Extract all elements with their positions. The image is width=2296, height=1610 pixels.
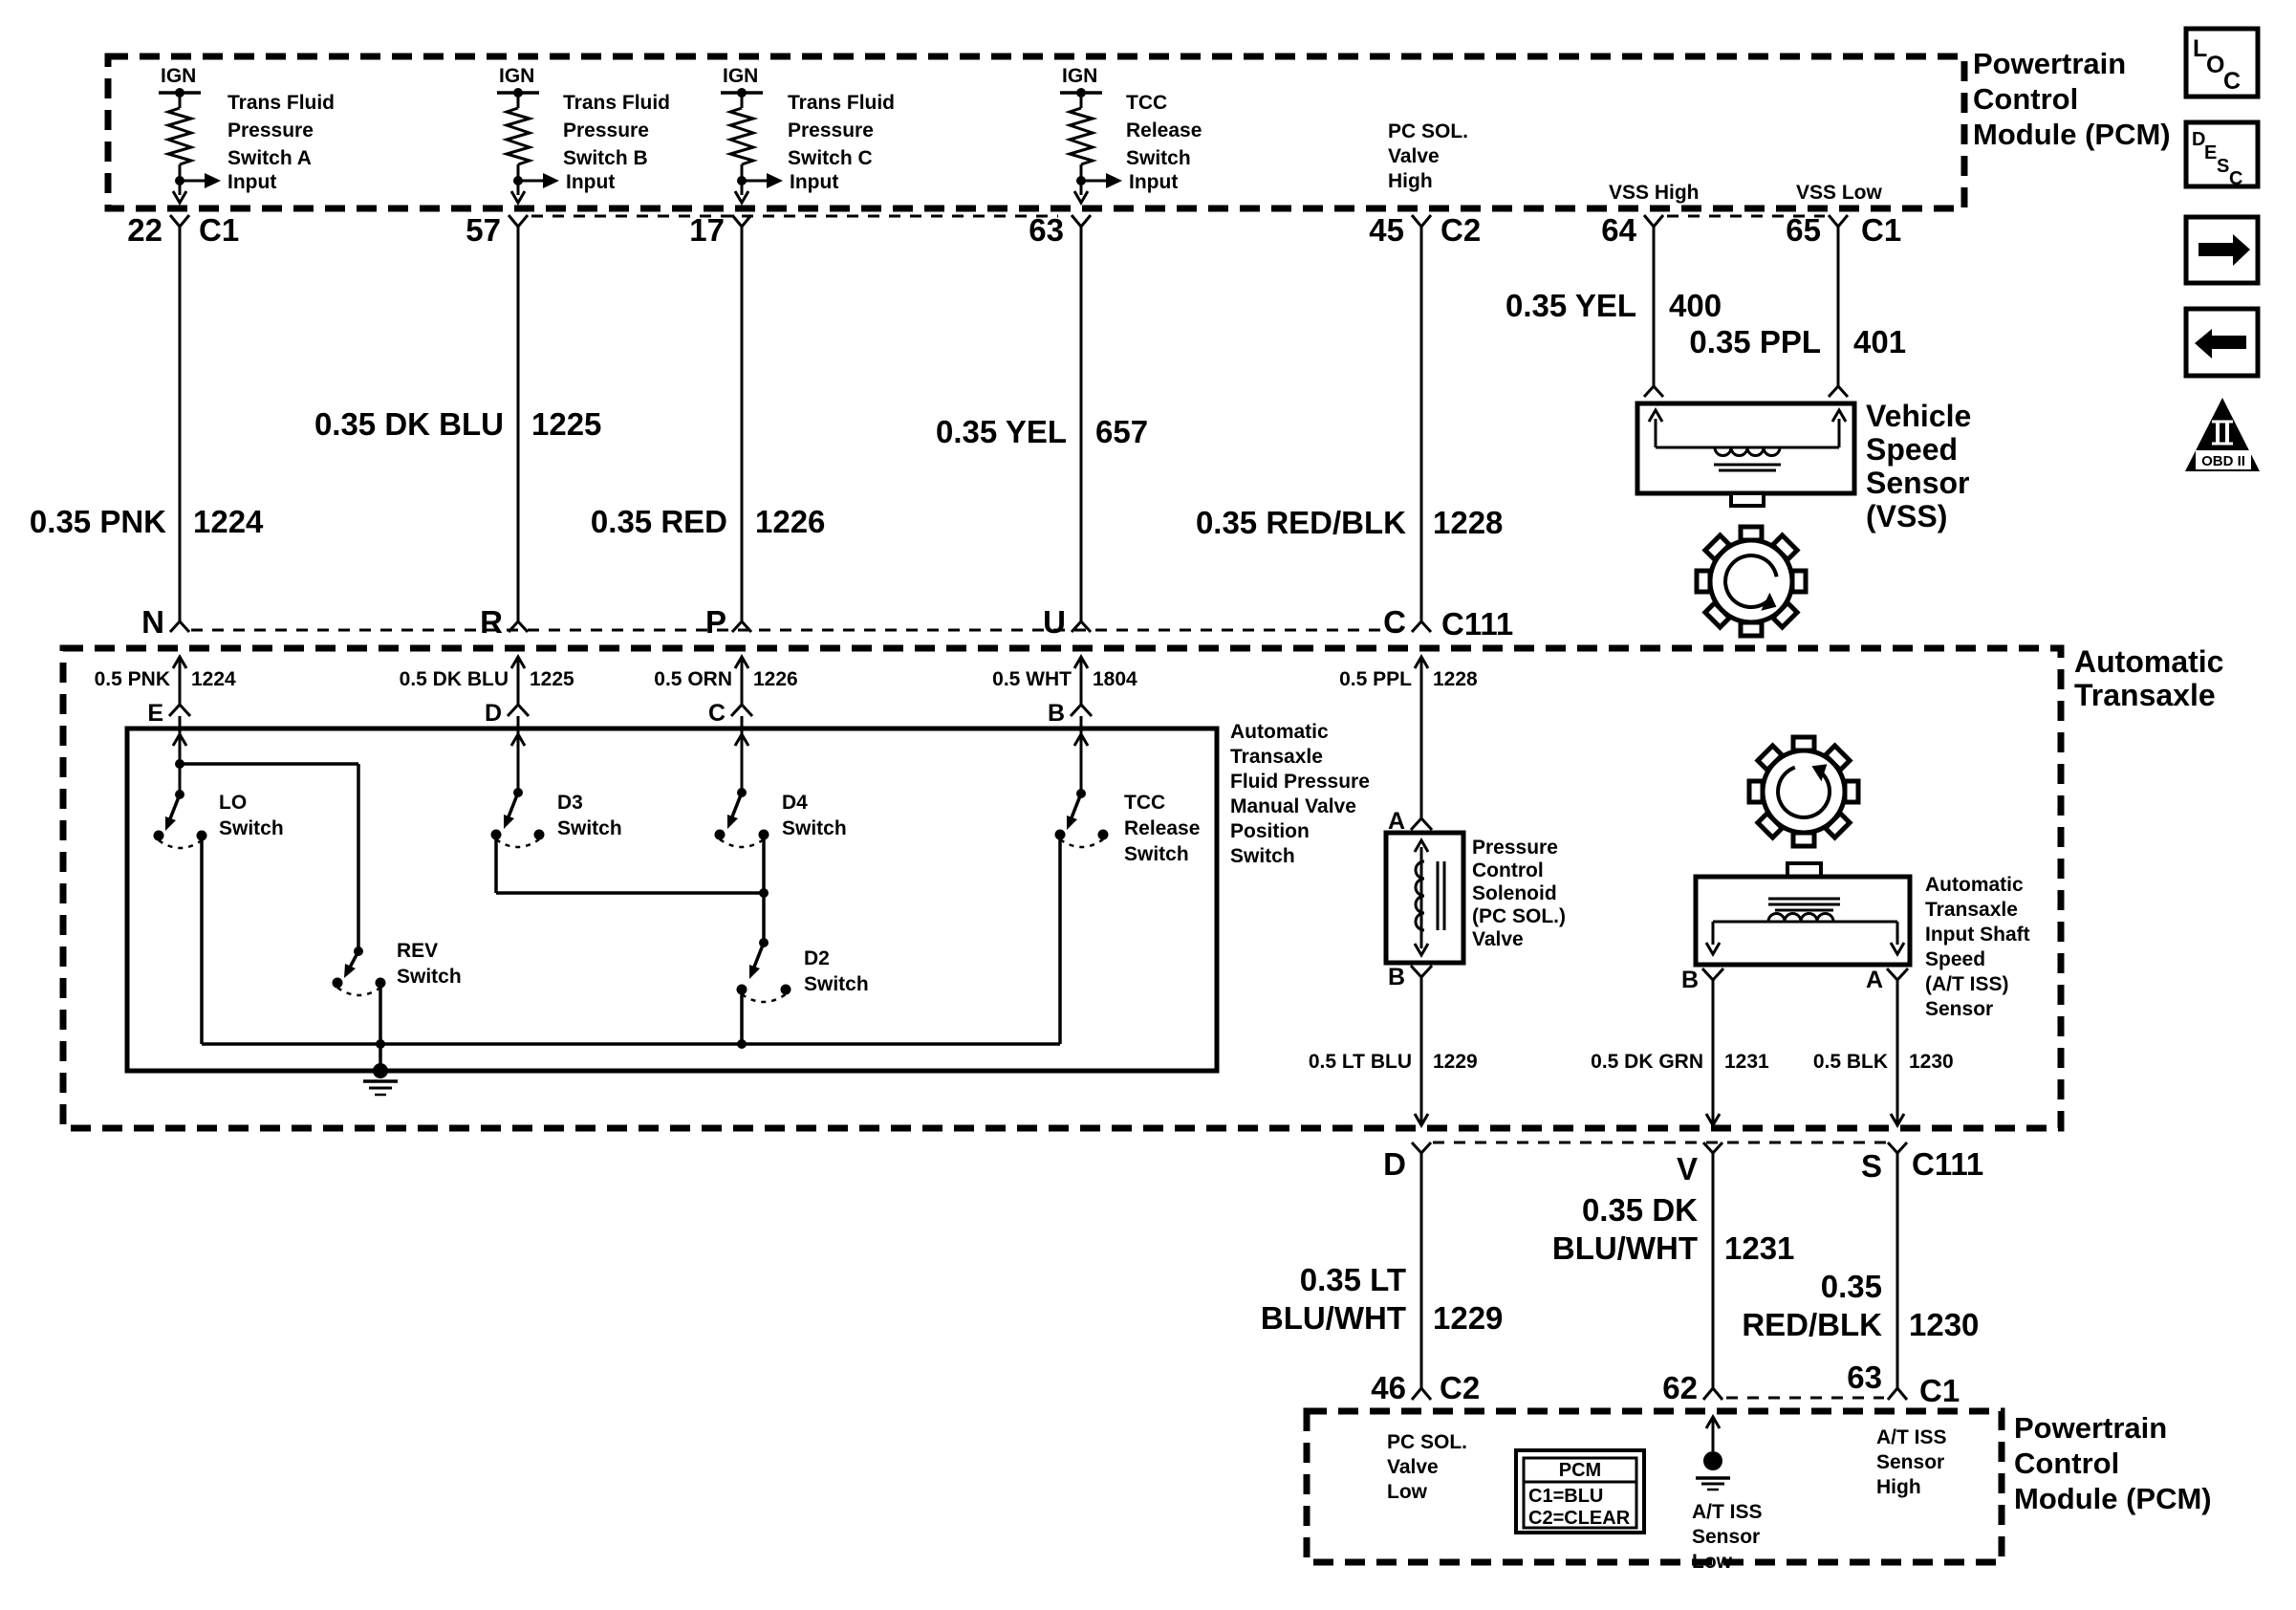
svg-text:0.35 LT: 0.35 LT (1300, 1262, 1406, 1297)
wire label 0.35 RED/BLK 1228 (1196, 505, 1503, 540)
svg-text:D3: D3 (557, 792, 583, 814)
svg-text:C1: C1 (1919, 1373, 1960, 1408)
svg-text:VSS Low: VSS Low (1796, 182, 1883, 204)
svg-text:Switch: Switch (219, 817, 284, 839)
svg-text:1224: 1224 (193, 504, 264, 539)
svg-text:Switch: Switch (1126, 147, 1191, 169)
svg-text:0.5 BLK: 0.5 BLK (1813, 1051, 1888, 1073)
switch D3 (491, 765, 545, 847)
svg-text:Switch: Switch (1124, 843, 1189, 865)
wire 1229 LT BLU (PC SOL B to C111 D) (1309, 977, 1478, 1125)
svg-text:45: 45 (1369, 212, 1404, 248)
label: A/T ISS Sensor Low (1692, 1501, 1763, 1573)
wire D4 contact down to D2 pivot (762, 835, 766, 943)
switch REV (333, 946, 386, 995)
wire TCC contact to ground bus (1058, 835, 1062, 1044)
svg-text:O: O (2206, 52, 2224, 78)
label: Automatic Transaxle (2074, 644, 2223, 712)
resistor: Trans Fluid Pressure Switch B (507, 108, 530, 164)
svg-text:1226: 1226 (753, 668, 798, 690)
icon: LOC box (2186, 29, 2258, 97)
svg-text:C111: C111 (1441, 606, 1513, 642)
svg-text:E: E (2204, 142, 2217, 163)
svg-text:Fluid Pressure: Fluid Pressure (1230, 771, 1370, 793)
connector pin A at PC SOL valve (1388, 808, 1432, 835)
label: Pressure Control Solenoid (PC SOL.) Valve (1472, 837, 1566, 950)
svg-text:0.5 DK BLU: 0.5 DK BLU (400, 668, 509, 690)
icon: left arrow box (2186, 309, 2258, 376)
PCM connector legend box (1516, 1450, 1644, 1533)
wire into switch (x=1131) (1074, 729, 1088, 765)
svg-text:Switch: Switch (397, 966, 462, 988)
svg-text:C2: C2 (1440, 1370, 1480, 1405)
label: LO Switch (219, 792, 284, 839)
svg-text:C2=CLEAR: C2=CLEAR (1528, 1508, 1631, 1529)
svg-text:Powertrain: Powertrain (2014, 1411, 2167, 1445)
svg-text:Switch A: Switch A (227, 147, 312, 169)
svg-text:1228: 1228 (1433, 505, 1503, 540)
connector pin R at C111 (480, 604, 528, 640)
connector pin 17 at PCM C1 (689, 212, 751, 248)
svg-text:C: C (708, 700, 726, 727)
label: Powertrain Control Module (PCM) top right (1973, 47, 2171, 151)
connector C111 upper thin dashed line (191, 629, 1411, 632)
svg-text:A/T ISS: A/T ISS (1876, 1426, 1947, 1448)
icon: OBD II triangle (2185, 398, 2260, 471)
node: switch C output junction + Input arrow (735, 164, 783, 203)
label: Automatic Transaxle Fluid Pressure Manual Valve Position Switch (1230, 721, 1370, 867)
svg-text:0.5 DK GRN: 0.5 DK GRN (1591, 1051, 1703, 1073)
PCM bottom module dashed box (1307, 1411, 2002, 1562)
svg-text:657: 657 (1095, 414, 1148, 449)
wire 400 YEL (pin64 to VSS) (1653, 227, 1656, 386)
svg-text:B: B (1388, 964, 1405, 990)
wire 1224 PNK (pin22 to C111 N) (179, 227, 182, 621)
svg-text:Position: Position (1230, 820, 1310, 842)
label: Vehicle Speed Sensor (VSS) (1866, 399, 1971, 533)
svg-text:IGN: IGN (723, 65, 758, 87)
switch D4 (715, 765, 769, 847)
svg-text:N: N (141, 604, 164, 640)
svg-text:Pressure: Pressure (227, 120, 314, 141)
wire label 0.35 RED 1226 (591, 504, 826, 539)
resistor: Trans Fluid Pressure Switch C (730, 108, 753, 164)
svg-text:VSS High: VSS High (1609, 182, 1700, 204)
svg-text:Switch C: Switch C (788, 147, 873, 169)
connector pin C at transaxle switch (708, 700, 752, 729)
svg-text:0.35 YEL: 0.35 YEL (1505, 288, 1636, 323)
svg-text:Control: Control (1973, 82, 2078, 116)
svg-text:Module (PCM): Module (PCM) (2014, 1482, 2212, 1515)
svg-text:L: L (2193, 35, 2207, 62)
svg-text:Low: Low (1387, 1481, 1428, 1503)
svg-text:A/T ISS: A/T ISS (1692, 1501, 1763, 1523)
svg-text:PCM: PCM (1559, 1460, 1601, 1481)
svg-text:D2: D2 (804, 947, 830, 969)
IGN feed for switch C (721, 65, 763, 108)
svg-text:(PC SOL.): (PC SOL.) (1472, 905, 1566, 927)
svg-text:Release: Release (1124, 817, 1200, 839)
svg-text:Transaxle: Transaxle (2074, 678, 2216, 712)
wire into switch (x=776) (735, 729, 748, 765)
svg-text:400: 400 (1669, 288, 1722, 323)
Pressure Control Solenoid (PC SOL.) Valve (1386, 833, 1463, 963)
wire 657 YEL (pin63 to C111 U) (1080, 227, 1083, 621)
svg-text:1230: 1230 (1909, 1307, 1979, 1342)
connector pin 45 C2 (1369, 212, 1481, 248)
svg-text:PC SOL.: PC SOL. (1387, 1431, 1467, 1453)
svg-text:Release: Release (1126, 120, 1202, 141)
svg-text:TCC: TCC (1124, 792, 1165, 814)
svg-text:22: 22 (127, 212, 162, 248)
connector pin V at C111 lower (1677, 1142, 1722, 1186)
svg-text:U: U (1043, 604, 1066, 640)
svg-text:1226: 1226 (755, 504, 825, 539)
wire into switch (x=542) (511, 729, 525, 765)
svg-text:(VSS): (VSS) (1866, 499, 1947, 533)
connector C1 thin dashed line (pins 64-65) (1667, 215, 1825, 218)
svg-text:Speed: Speed (1925, 948, 1985, 970)
wire REV contact to ground (376, 983, 385, 1071)
svg-text:1224: 1224 (191, 668, 236, 690)
svg-text:Sensor: Sensor (1866, 466, 1969, 500)
resistor: TCC Release Switch (1070, 108, 1093, 164)
svg-text:Control: Control (1472, 859, 1544, 881)
svg-text:High: High (1876, 1476, 1921, 1498)
IGN feed for switch TCC (1060, 65, 1102, 108)
label: PC SOL. Valve Low (1387, 1431, 1467, 1503)
svg-text:Valve: Valve (1472, 928, 1524, 950)
icon: right arrow box (2186, 217, 2258, 283)
svg-text:Switch: Switch (1230, 845, 1295, 867)
svg-text:Switch: Switch (782, 817, 847, 839)
svg-text:0.35 DK: 0.35 DK (1582, 1192, 1698, 1228)
wire label 0.35 PPL 401 (1689, 324, 1906, 359)
wire D3 contact to D4 line (496, 835, 769, 898)
node: switch B output junction + Input arrow (511, 164, 559, 203)
wire label 0.35 PNK 1224 (30, 504, 264, 539)
resistor: Trans Fluid Pressure Switch A (168, 108, 191, 164)
label: D3 Switch (557, 792, 622, 839)
svg-text:46: 46 (1371, 1370, 1406, 1405)
svg-text:1229: 1229 (1433, 1300, 1503, 1336)
svg-text:0.35 DK BLU: 0.35 DK BLU (314, 406, 504, 442)
svg-text:57: 57 (466, 212, 501, 248)
svg-text:A: A (1866, 967, 1883, 993)
wire 1224 0.5 PNK (C111 to transaxle pin E) (95, 657, 236, 705)
svg-text:1228: 1228 (1433, 668, 1478, 690)
label: REV Switch (397, 940, 462, 988)
svg-text:0.5 PPL: 0.5 PPL (1339, 668, 1412, 690)
svg-text:Solenoid: Solenoid (1472, 882, 1557, 904)
connector C111 lower thin dashed line (1433, 1142, 1886, 1144)
Vehicle Speed Sensor (VSS) body (1637, 403, 1854, 506)
svg-text:0.35 RED: 0.35 RED (591, 504, 727, 539)
svg-text:1231: 1231 (1724, 1051, 1769, 1073)
svg-text:Switch: Switch (804, 973, 869, 995)
svg-text:Sensor: Sensor (1692, 1526, 1760, 1548)
svg-text:Automatic: Automatic (2074, 644, 2223, 679)
svg-text:D4: D4 (782, 792, 808, 814)
connector pin E at transaxle switch (147, 700, 190, 729)
svg-text:1229: 1229 (1433, 1051, 1478, 1073)
svg-text:Automatic: Automatic (1925, 874, 2024, 896)
svg-text:C: C (2223, 68, 2241, 95)
VSS reluctor gear (1697, 527, 1806, 636)
svg-text:64: 64 (1601, 212, 1636, 248)
label: PC SOL. Valve High (1388, 120, 1468, 192)
wire 1229 LT BLU/WHT (C111 D to pin 46) (1261, 1153, 1504, 1388)
svg-text:E: E (147, 700, 163, 727)
PCM top module dashed box (108, 56, 1964, 208)
svg-text:0.35 PNK: 0.35 PNK (30, 504, 166, 539)
wire 1231 DK GRN (ISS B to C111 V) (1591, 980, 1769, 1125)
connector pin 65 C1 (1786, 212, 1901, 248)
svg-text:Manual Valve: Manual Valve (1230, 795, 1356, 817)
svg-text:IGN: IGN (1062, 65, 1097, 87)
svg-text:Module (PCM): Module (PCM) (1973, 118, 2171, 151)
svg-text:62: 62 (1662, 1370, 1698, 1405)
svg-text:Pressure: Pressure (1472, 837, 1558, 859)
svg-text:Trans Fluid: Trans Fluid (227, 92, 335, 114)
svg-text:S: S (2217, 156, 2229, 177)
svg-text:65: 65 (1786, 212, 1821, 248)
svg-text:IGN: IGN (499, 65, 534, 87)
wire 1804 0.5 WHT (C111 to transaxle pin B) (992, 657, 1137, 705)
label: D2 Switch (804, 947, 869, 995)
Automatic Transaxle Fluid Pressure Manual Valve Position Switch box (127, 729, 1217, 1071)
wire 1228 PPL (C111 C to PC SOL A) (1339, 657, 1478, 818)
svg-text:Pressure: Pressure (563, 120, 649, 141)
connector pin B at PC SOL valve (1388, 964, 1432, 990)
connector pin D at C111 lower (1383, 1142, 1431, 1182)
svg-text:P: P (705, 604, 726, 640)
connector pin P at C111 (705, 604, 751, 640)
svg-text:1804: 1804 (1093, 668, 1137, 690)
svg-text:High: High (1388, 170, 1433, 192)
svg-text:D: D (485, 700, 502, 727)
svg-text:C: C (2229, 168, 2242, 189)
wire 1231 DK BLU/WHT (C111 V to pin 62) (1552, 1153, 1795, 1388)
label: Powertrain Control Module (PCM) bottom right (2014, 1411, 2212, 1515)
svg-text:Valve: Valve (1387, 1456, 1439, 1478)
wire 1228 RED/BLK (pin45 to C111 C) (1420, 227, 1423, 621)
svg-text:C2: C2 (1440, 212, 1481, 248)
svg-text:Powertrain: Powertrain (1973, 47, 2126, 80)
label: Trans Fluid Pressure Switch C Input (788, 92, 895, 193)
connector pin S at C111 lower (1861, 1142, 1907, 1184)
svg-text:(A/T ISS): (A/T ISS) (1925, 973, 2009, 995)
wire 401 PPL (pin65 to VSS) (1837, 227, 1840, 386)
svg-text:Input: Input (1129, 171, 1178, 193)
wire 1225 0.5 DK BLU (C111 to transaxle pin D) (400, 657, 574, 705)
connector C1 thin dashed line (pins 57-63) (531, 215, 1058, 218)
ground bus wire inside switch box (202, 1042, 1060, 1046)
connector pin U at C111 (1043, 604, 1091, 640)
connector pin 22 C1 at PCM C1 (127, 212, 239, 248)
connector C1 thin dashed line (pins 62-63) (1726, 1397, 1884, 1400)
connector pin 63 C1 at PCM (1847, 1360, 1960, 1408)
connector pin N at C111 (141, 604, 189, 640)
wire 1226 RED (pin17 to C111 P) (741, 227, 744, 621)
svg-text:OBD II: OBD II (2201, 453, 2245, 469)
connector pin 64 (1601, 212, 1663, 248)
svg-text:Switch: Switch (557, 817, 622, 839)
svg-text:Control: Control (2014, 1447, 2119, 1480)
connector pin 46 C2 at PCM (1371, 1370, 1480, 1405)
connector pin 57 at PCM C1 (466, 212, 528, 248)
svg-text:B: B (1048, 700, 1065, 727)
svg-text:1225: 1225 (530, 668, 574, 690)
label: Trans Fluid Pressure Switch B Input (563, 92, 670, 193)
label: A/T ISS Sensor High (1876, 1426, 1947, 1498)
svg-text:401: 401 (1853, 324, 1906, 359)
svg-text:BLU/WHT: BLU/WHT (1261, 1300, 1406, 1336)
label: Trans Fluid Pressure Switch A Input (227, 92, 335, 193)
svg-text:C1: C1 (199, 212, 239, 248)
switch TCC Release (1055, 765, 1109, 847)
svg-text:1231: 1231 (1724, 1230, 1794, 1266)
svg-text:Input: Input (227, 171, 276, 193)
wire label 0.35 YEL 657 (936, 414, 1148, 449)
connector pin A at ISS sensor (1866, 967, 1908, 993)
wire label 0.35 YEL 400 (1505, 288, 1722, 323)
switch D2 (737, 938, 791, 1002)
svg-text:Trans Fluid: Trans Fluid (788, 92, 895, 114)
A/T ISS reluctor gear (1749, 737, 1858, 846)
Automatic Transaxle dashed box (63, 648, 2061, 1128)
svg-text:Transaxle: Transaxle (1925, 899, 2018, 921)
svg-text:17: 17 (689, 212, 725, 248)
svg-text:0.5 ORN: 0.5 ORN (654, 668, 732, 690)
connector pin 63 at PCM C1 (1029, 212, 1091, 248)
icon: DESC box (2186, 122, 2258, 189)
VSS connector pins at sensor (1644, 386, 1848, 397)
svg-text:LO: LO (219, 792, 247, 814)
svg-text:0.5 PNK: 0.5 PNK (95, 668, 170, 690)
svg-text:Speed: Speed (1866, 432, 1958, 467)
svg-text:Input: Input (790, 171, 838, 193)
label: D4 Switch (782, 792, 847, 839)
svg-text:Valve: Valve (1388, 145, 1440, 167)
connector pin C at C111 (1383, 604, 1431, 640)
svg-text:C1=BLU: C1=BLU (1528, 1486, 1603, 1507)
svg-text:V: V (1677, 1151, 1698, 1186)
wire 1225 DK BLU (pin57 to C111 R) (517, 227, 520, 621)
svg-text:IGN: IGN (161, 65, 196, 87)
svg-text:S: S (1861, 1148, 1882, 1184)
svg-text:1225: 1225 (531, 406, 601, 442)
ground: A/T ISS Sensor Low inside PCM (1696, 1417, 1730, 1490)
connector pin B at transaxle switch (1048, 700, 1092, 729)
connector pin D at transaxle switch (485, 700, 529, 729)
wire 1230 RED/BLK (C111 S to pin 63) (1742, 1153, 1979, 1388)
svg-text:Vehicle: Vehicle (1866, 399, 1971, 433)
svg-text:Pressure: Pressure (788, 120, 874, 141)
svg-text:PC SOL.: PC SOL. (1388, 120, 1468, 142)
wire 1230 BLK (ISS A to C111 S) (1813, 980, 1954, 1125)
wire LO contact to ground bus (200, 836, 204, 1044)
wire D2 contact to ground bus (737, 990, 747, 1049)
svg-text:1230: 1230 (1909, 1051, 1954, 1073)
svg-text:Input: Input (566, 171, 615, 193)
svg-text:Trans Fluid: Trans Fluid (563, 92, 670, 114)
svg-text:0.35 RED/BLK: 0.35 RED/BLK (1196, 505, 1406, 540)
svg-text:C111: C111 (1912, 1146, 1983, 1182)
svg-text:Switch B: Switch B (563, 147, 648, 169)
label: TCC Release Switch (1124, 792, 1200, 865)
svg-text:63: 63 (1847, 1360, 1882, 1395)
svg-text:REV: REV (397, 940, 438, 962)
svg-text:Sensor: Sensor (1925, 998, 1993, 1020)
svg-text:Input Shaft: Input Shaft (1925, 924, 2030, 946)
svg-text:0.35: 0.35 (1821, 1269, 1882, 1304)
wire 1226 0.5 ORN (C111 to transaxle pin C) (654, 657, 797, 705)
svg-text:TCC: TCC (1126, 92, 1167, 114)
svg-text:Sensor: Sensor (1876, 1451, 1944, 1473)
IGN feed for switch B (497, 65, 539, 108)
label: TCC Release Switch Input (1126, 92, 1202, 193)
svg-text:63: 63 (1029, 212, 1064, 248)
svg-text:0.5 WHT: 0.5 WHT (992, 668, 1072, 690)
wire label 0.35 DK BLU 1225 (314, 406, 601, 442)
svg-text:Transaxle: Transaxle (1230, 746, 1323, 768)
svg-text:0.35 PPL: 0.35 PPL (1689, 324, 1821, 359)
svg-text:Low: Low (1692, 1551, 1733, 1573)
node: switch TCC output junction + Input arrow (1074, 164, 1122, 203)
node: switch A output junction + Input arrow (173, 164, 221, 203)
svg-text:C: C (1383, 604, 1406, 640)
svg-text:RED/BLK: RED/BLK (1742, 1307, 1882, 1342)
svg-text:C1: C1 (1861, 212, 1901, 248)
switch LO (154, 759, 359, 951)
svg-text:Automatic: Automatic (1230, 721, 1329, 743)
svg-text:BLU/WHT: BLU/WHT (1552, 1230, 1698, 1266)
svg-text:0.35 YEL: 0.35 YEL (936, 414, 1067, 449)
connector pin B at ISS sensor (1681, 967, 1723, 993)
wire into switch (x=188) (173, 729, 186, 765)
Automatic Transaxle Input Shaft Speed (A/T ISS) Sensor body (1696, 863, 1910, 965)
ground at switch box (363, 1063, 398, 1095)
svg-text:R: R (480, 604, 503, 640)
svg-text:0.5 LT BLU: 0.5 LT BLU (1309, 1051, 1412, 1073)
IGN feed for switch A (159, 65, 201, 108)
svg-text:D: D (1383, 1146, 1406, 1182)
svg-text:B: B (1681, 967, 1699, 993)
connector pin 62 at PCM (1662, 1370, 1722, 1405)
label: Automatic Transaxle Input Shaft Speed (A/T ISS) Sensor (1925, 874, 2030, 1020)
